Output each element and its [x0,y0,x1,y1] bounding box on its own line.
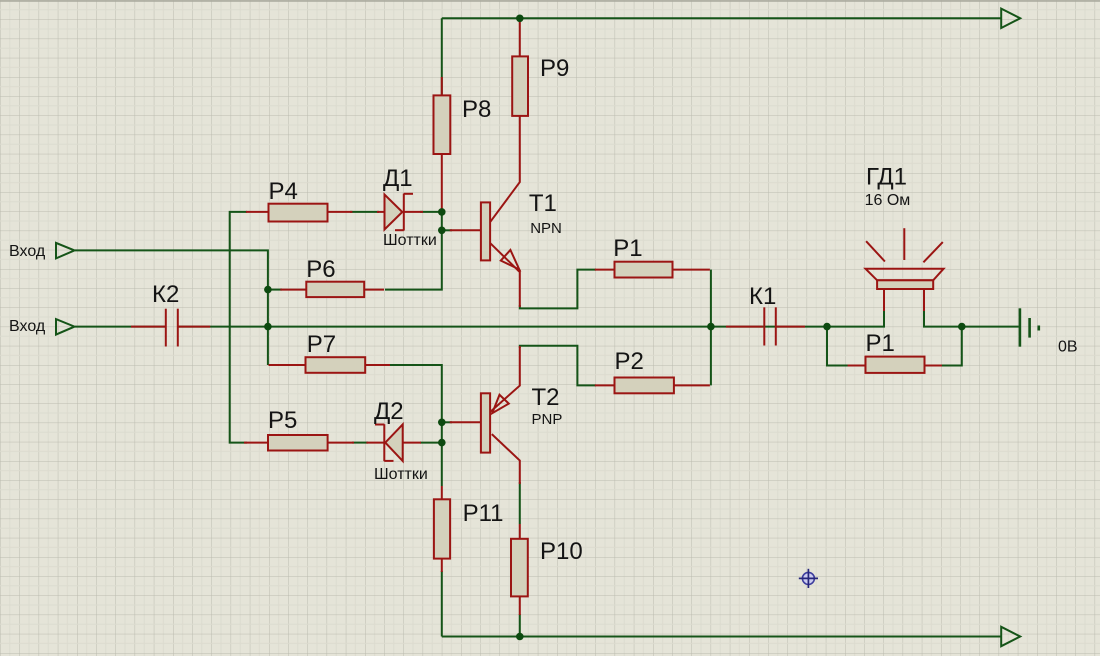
power arrow top [1001,9,1020,28]
wire input 1 [75,250,268,365]
pin K1 right [777,326,805,328]
svg-text:К2: К2 [152,281,179,308]
pin R7 left [269,364,306,366]
pin D1 right [405,211,424,213]
pin R6 left [280,289,306,291]
power arrow bottom [1001,627,1020,646]
svg-text:Р10: Р10 [540,538,583,565]
diode D2 [375,424,403,461]
junction dot R10 bottom [516,633,524,641]
svg-text:Р6: Р6 [306,256,335,283]
svg-text:16 Ом: 16 Ом [865,192,911,209]
junction dot T1 base [438,227,446,235]
input buffer 1 [56,243,75,259]
wire R1/R2 right vertical [710,270,712,386]
wire main line [179,310,885,327]
resistor R1a [615,262,673,278]
wire T2 emitter loop [520,346,596,386]
pin T1 collector [490,116,519,222]
svg-text:Д1: Д1 [383,165,413,192]
pin R2 right [674,384,710,386]
svg-text:0В: 0В [1058,339,1078,356]
pin T1 emitter [490,243,519,307]
svg-text:Д2: Д2 [374,398,404,425]
junction dot main input [264,323,272,331]
wire vertical A (R4-R5 left) [230,212,247,443]
resistor R4 [269,204,328,222]
junction dot D1 cathode [438,208,446,216]
pin R4 right [328,211,353,213]
pin T2 emitter [490,346,519,412]
wire T2 collector mid [519,482,521,524]
capacitor K2 [166,309,178,347]
svg-text:NPN: NPN [530,220,562,237]
pin R1b right [925,365,942,367]
pin K2 right [179,326,211,328]
resistor R2 [615,378,674,394]
junction dot D2 row [438,439,446,447]
junction dot T2 base [438,419,446,427]
capacitor K1 [764,307,776,345]
wire T1 emitter loop [520,270,596,309]
pin speaker left [883,289,885,311]
pin R7 right [365,364,390,366]
svg-text:Вход: Вход [9,243,46,260]
pin D2 right [403,442,421,444]
pin R1a right [673,269,710,271]
resistor R6 [306,282,364,297]
svg-text:Р5: Р5 [268,407,297,434]
svg-text:Шоттки: Шоттки [383,232,437,249]
svg-text:Р8: Р8 [462,96,491,123]
wire D2 right [420,442,442,444]
wire input 2 / main line [75,326,165,328]
junction dot R1R2 main [707,323,715,331]
wire R1b right loop [941,327,962,366]
wire speaker left pin lower [883,312,885,327]
transistor T2 [481,393,509,452]
wire top rail [442,17,1001,19]
speaker ГД1 [866,228,944,289]
pin R5 right [328,442,354,444]
terminal 0V [1020,308,1039,346]
resistor R8 [434,95,451,154]
wire bottom rail [442,636,1001,638]
svg-text:PNP: PNP [532,411,563,428]
wire D1 right [420,211,442,213]
wire R1b loop [827,327,849,366]
pin R1a left [595,269,615,271]
pin K2 left [131,326,165,328]
junction dot speaker right [958,323,966,331]
top edge line [0,0,1100,2]
wire R6 right from vertical [385,212,442,290]
pin R11 bottom [441,559,443,572]
svg-text:Т1: Т1 [529,190,557,217]
pin T2 collector [492,434,520,484]
wire R7 right to vertical [388,365,442,486]
pin R9 top [519,20,521,56]
svg-text:Р4: Р4 [269,178,298,205]
junction dot K1 right [823,323,831,331]
resistor R11 [434,499,450,558]
pin R2 left [595,384,615,386]
resistor R5 [268,435,328,451]
pin R8 top [441,77,443,95]
svg-text:К1: К1 [749,283,776,310]
pin R4 left [246,211,269,213]
wire R8 top [441,18,443,95]
pin R11 top [441,486,443,499]
pin R1b left [848,365,866,367]
pin R6 right [364,289,384,291]
pin speaker right [923,289,925,311]
origin marker [799,569,818,588]
pin R5 left [244,442,268,444]
resistor R10 [511,539,528,597]
wire R4-D1 mid [350,211,379,213]
pin T2 base [450,421,481,423]
diode D1 [385,194,414,231]
transistor T1 [481,202,519,269]
pin R8 bottom [441,154,443,211]
resistor R9 [512,56,528,116]
svg-text:Вход: Вход [9,318,46,335]
svg-text:Р11: Р11 [463,500,504,527]
wire R5-D2 mid [352,442,368,444]
svg-text:Р9: Р9 [540,55,569,82]
pin D1 left [377,211,385,213]
pin D2 left [366,442,385,444]
wire speaker right to 0V [924,310,1019,327]
svg-text:Шоттки: Шоттки [374,466,428,483]
svg-text:Р2: Р2 [615,348,644,375]
junction dot R6 left [264,286,272,294]
wire T2 base stub [442,421,452,423]
wire T1 base stub [442,229,452,231]
pin K1 left [726,326,763,328]
svg-text:Р1: Р1 [613,235,642,262]
wire R10 bottom [519,614,521,637]
svg-text:ГД1: ГД1 [866,164,907,191]
resistor R7 [306,357,366,373]
svg-text:Т2: Т2 [532,384,560,411]
input buffer 2 [56,319,75,335]
junction dot top rail R9 [516,14,524,22]
wire R6 left stub [268,289,282,291]
pin R10 bottom [519,596,521,615]
pin T1 base [450,229,481,231]
svg-text:Р1: Р1 [866,330,895,357]
wire R11 bottom [441,571,443,637]
resistor R1b [866,357,925,373]
svg-text:Р7: Р7 [307,331,336,358]
wire speaker right pin lower [923,312,925,327]
pin R10 top [519,524,521,539]
